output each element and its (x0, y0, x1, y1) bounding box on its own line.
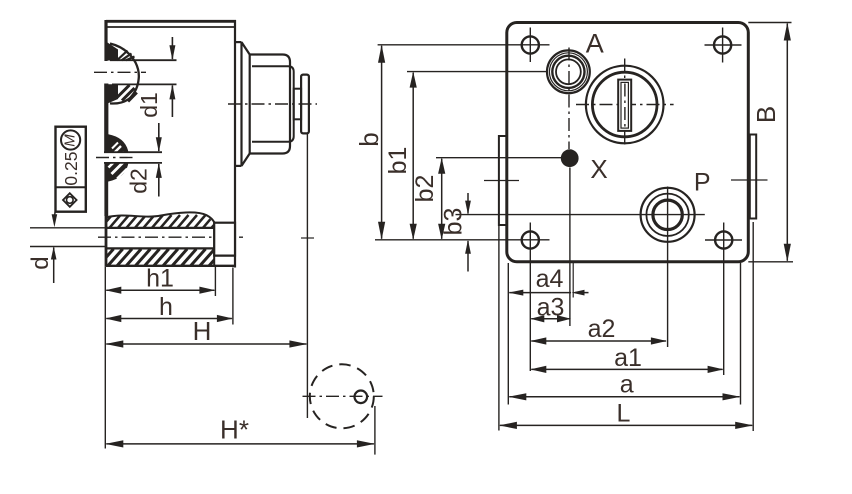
svg-text:a: a (620, 371, 634, 399)
svg-text:H*: H* (220, 415, 249, 445)
svg-text:a2: a2 (588, 315, 616, 343)
svg-text:h1: h1 (146, 265, 174, 293)
svg-text:b3: b3 (440, 208, 468, 236)
svg-text:a1: a1 (614, 344, 642, 372)
svg-text:a4: a4 (536, 265, 564, 293)
svg-text:0.25: 0.25 (61, 152, 81, 186)
svg-text:d: d (27, 256, 54, 269)
svg-text:h: h (159, 293, 173, 321)
svg-text:a3: a3 (537, 294, 565, 322)
svg-text:X: X (590, 154, 607, 184)
svg-text:L: L (617, 400, 631, 428)
svg-text:d1: d1 (136, 92, 162, 118)
svg-text:M: M (62, 134, 79, 147)
svg-text:b1: b1 (384, 147, 412, 175)
svg-text:A: A (586, 29, 604, 59)
svg-text:d2: d2 (126, 168, 152, 194)
svg-text:H: H (193, 316, 212, 346)
svg-text:P: P (694, 169, 711, 197)
svg-text:b2: b2 (411, 175, 439, 203)
svg-text:b: b (354, 132, 384, 146)
svg-text:B: B (751, 106, 781, 123)
